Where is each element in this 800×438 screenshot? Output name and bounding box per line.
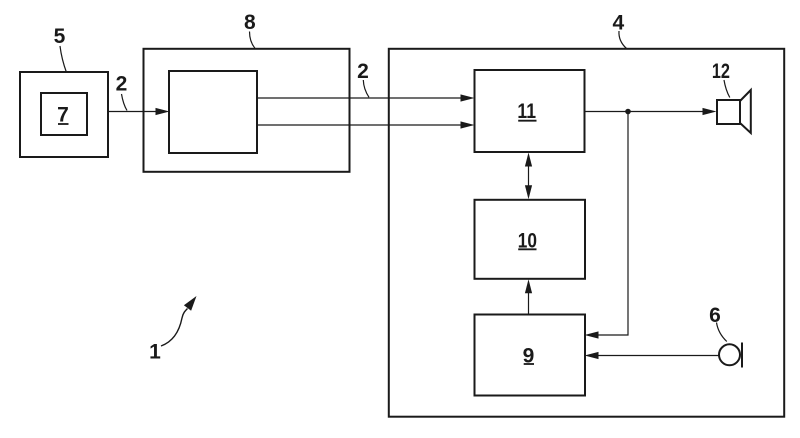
inner block of 8 (unlabeled box) [169, 71, 257, 153]
leader line for label 5 [60, 46, 67, 73]
svg-text:6: 6 [709, 304, 721, 327]
wire from microphone 6 to block 9 [597, 355, 719, 357]
microphone 6 [719, 343, 742, 368]
block 9 [475, 315, 586, 396]
leader arrow for label 1 [161, 296, 197, 346]
arrow from block 9 to block 10 [525, 279, 532, 314]
svg-text:11: 11 [517, 100, 536, 123]
leader line for label 12 [724, 80, 730, 98]
label 9 [523, 344, 535, 367]
svg-text:5: 5 [54, 25, 66, 48]
svg-text:2: 2 [116, 72, 128, 95]
block 11 [475, 70, 585, 152]
leader line for left label 2 [122, 94, 128, 111]
leader line for label 8 [250, 32, 256, 49]
wire from block 11 to speaker 12 [585, 111, 706, 113]
leader line for right label 2 [363, 80, 369, 97]
label 11 [517, 100, 536, 123]
block 8 (outer box) [144, 49, 350, 172]
leader line for label 4 [619, 31, 627, 49]
block 10 [475, 200, 586, 279]
svg-text:1: 1 [149, 341, 161, 364]
junction dot on speaker wire [625, 109, 631, 115]
double-headed arrow between block 11 and block 10 [525, 153, 532, 200]
block 4 (large enclosure) [389, 49, 784, 417]
wire from junction down to block 9 (feedback) [597, 112, 628, 336]
svg-text:8: 8 [244, 11, 256, 34]
svg-text:12: 12 [712, 60, 730, 83]
svg-text:2: 2 [357, 60, 369, 83]
label 7 [57, 103, 69, 126]
leader line for label 6 [717, 323, 727, 342]
wire (lower) from inner block of 8 to block 11 [257, 124, 463, 126]
label 10 [518, 229, 537, 252]
speaker 12 [717, 90, 751, 133]
wire (upper) from inner block of 8 to block 11 [257, 97, 463, 99]
block 7 (inner box) [41, 93, 87, 135]
block 5 (outer box) [20, 72, 108, 157]
svg-text:7: 7 [57, 103, 69, 126]
wire 2 from block 5 to inner block of 8 [108, 111, 157, 113]
